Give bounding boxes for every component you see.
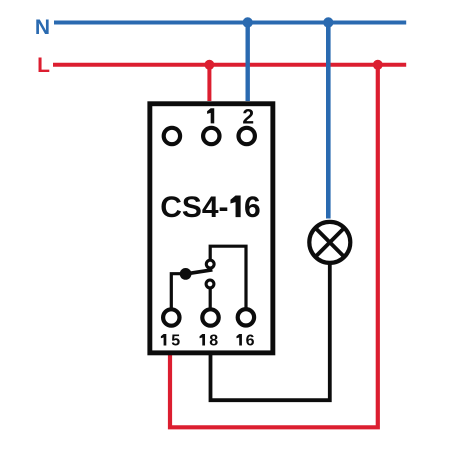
relay contact wire: NO contact to pin 16 bbox=[210, 246, 246, 310]
wire N to relay pin 2 bbox=[245, 23, 249, 102]
junction on L at return riser bbox=[373, 60, 383, 70]
wire N bus bbox=[54, 21, 406, 25]
lamp E1 cross stroke 1 bbox=[315, 228, 344, 257]
svg-text:L: L bbox=[37, 54, 50, 77]
wire L return from pin 15 (right side loop) bbox=[170, 65, 378, 428]
pin label 16 bbox=[236, 334, 241, 346]
svg-text:6: 6 bbox=[244, 191, 261, 224]
relay armature pivot dot bbox=[180, 268, 192, 280]
relay NO contact circle bbox=[206, 260, 214, 268]
junction on N at lamp drop bbox=[323, 17, 333, 27]
pin label 1 bbox=[207, 108, 214, 123]
terminal circle pin 1 bbox=[203, 128, 219, 144]
terminal circle pin 15 bbox=[163, 309, 179, 325]
terminal circle pin 2 bbox=[239, 128, 255, 144]
svg-text:N: N bbox=[35, 16, 50, 39]
svg-text:CS4-: CS4- bbox=[160, 191, 228, 224]
relay NC contact circle bbox=[206, 280, 214, 288]
wire L to relay pin 1 bbox=[207, 65, 211, 101]
wire pin 18 to lamp E1 bbox=[211, 264, 330, 400]
svg-text:6: 6 bbox=[246, 333, 255, 350]
wire L bus bbox=[53, 63, 406, 67]
svg-text:8: 8 bbox=[209, 333, 218, 350]
svg-text:2: 2 bbox=[242, 105, 254, 128]
terminal circle pin 16 bbox=[238, 309, 254, 325]
relay contact wire: NC contact to pin 18 bbox=[209, 289, 212, 311]
terminal circle unlabeled top-left bbox=[164, 128, 180, 144]
lamp E1 symbol circle bbox=[309, 222, 350, 263]
junction on L at pin-1 drop bbox=[204, 60, 214, 70]
terminal circle pin 18 bbox=[202, 309, 218, 325]
relay switch arm bbox=[186, 270, 213, 274]
relay common wire: pivot to pin 15 bbox=[171, 274, 185, 310]
lamp E1 cross stroke 2 bbox=[315, 228, 344, 257]
pin label 15 bbox=[161, 334, 166, 346]
svg-text:5: 5 bbox=[171, 333, 180, 350]
pin label 18 bbox=[200, 334, 205, 346]
wire N to lamp E1 bbox=[326, 23, 331, 219]
junction on N at pin-2 drop bbox=[243, 17, 253, 27]
relay U1 body outline bbox=[150, 104, 273, 353]
